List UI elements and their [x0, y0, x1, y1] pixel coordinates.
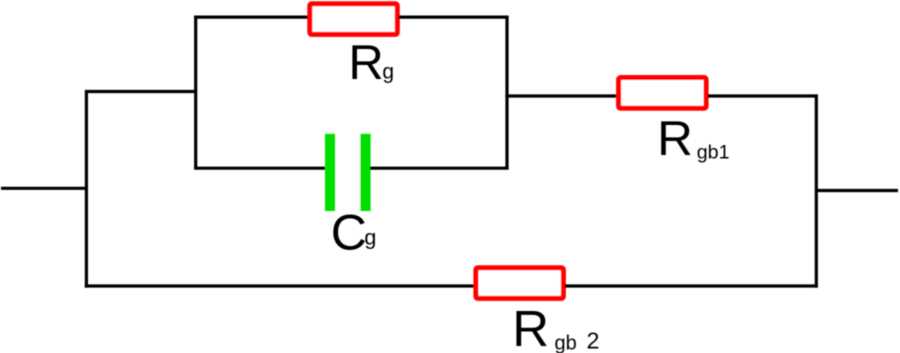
- wire: top branch right segment: [399, 16, 509, 19]
- capacitor Cg left plate: [325, 134, 335, 211]
- svg-text:R: R: [512, 300, 549, 353]
- svg-text:R: R: [657, 111, 693, 166]
- svg-text:R: R: [348, 36, 383, 90]
- wire: parallel box left vertical: [194, 16, 197, 170]
- wire: top branch left segment: [194, 16, 308, 19]
- svg-text:g: g: [382, 60, 394, 83]
- svg-text:gb1: gb1: [697, 142, 730, 164]
- svg-text:gb: gb: [555, 333, 577, 353]
- wire: left junction horizontal to parallel box: [85, 90, 196, 93]
- wire: bottom branch right segment: [565, 284, 818, 287]
- resistor Rgb2 body: [476, 268, 564, 299]
- resistor Rg body: [310, 4, 398, 35]
- svg-text:2: 2: [587, 327, 600, 353]
- wire: bottom branch left segment: [85, 284, 475, 287]
- wire: left input lead: [1, 187, 86, 190]
- wire: horizontal from Rgb1 to right vertical: [708, 94, 818, 97]
- svg-text:C: C: [331, 204, 367, 260]
- wire: right output lead: [816, 189, 898, 192]
- wire: capacitor branch left segment: [194, 167, 326, 170]
- wire: capacitor branch right segment: [370, 167, 509, 170]
- capacitor Cg right plate: [361, 134, 371, 211]
- wire: right outer vertical: [815, 94, 818, 287]
- wire: left outer vertical: [85, 90, 88, 288]
- wire: horizontal from parallel box to Rgb1: [505, 94, 616, 97]
- resistor Rgb1 body: [619, 78, 707, 109]
- svg-text:g: g: [364, 226, 376, 250]
- wire: parallel box right vertical: [505, 16, 508, 170]
